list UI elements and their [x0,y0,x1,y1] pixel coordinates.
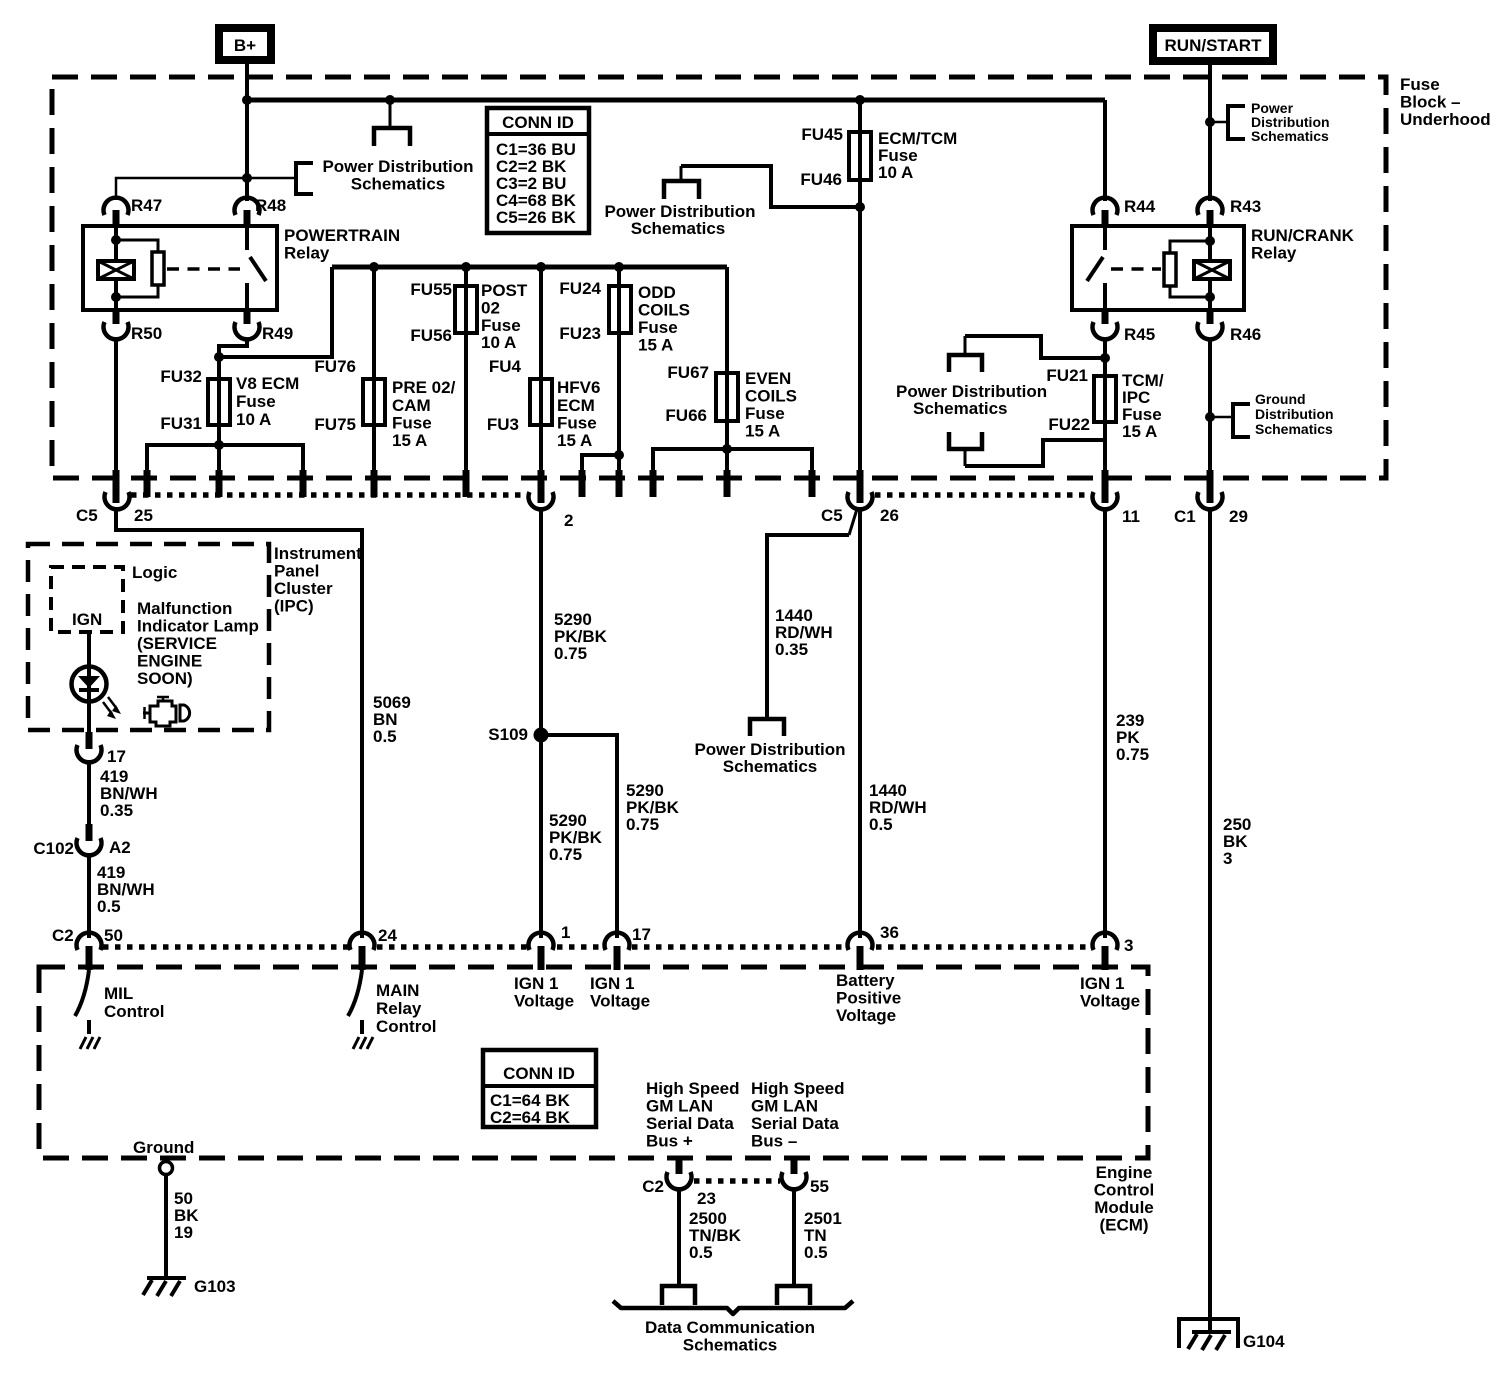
wire R45 to FU21 [1103,338,1107,422]
ECM pin 50 stub [86,946,93,970]
node coil top [111,235,121,245]
svg-text:Logic: Logic [132,563,177,582]
wire FU66 to branch [725,421,729,472]
svg-text:0.5: 0.5 [804,1243,828,1262]
pin 26 arc [848,492,873,509]
ground internal (MAIN) [353,1037,373,1049]
svg-text:FU4: FU4 [489,357,522,376]
wire MIL lamp to IPC pin 17 [87,701,91,734]
svg-text:V8 ECM: V8 ECM [236,374,299,393]
ECM pin 36 arc [848,933,873,950]
svg-text:POST: POST [481,281,528,300]
svg-text:ENGINE: ENGINE [137,652,202,671]
wire FU31 output branch [147,445,303,470]
svg-text:0.75: 0.75 [554,644,587,663]
ECM pin 55 arc [781,1172,806,1189]
svg-text:Schematics: Schematics [631,219,726,238]
svg-text:R45: R45 [1124,325,1155,344]
pin R46 [1198,308,1262,344]
wire FU56 column [464,267,468,472]
wire relay coil vertical [114,226,118,310]
svg-text:10 A: 10 A [878,163,913,182]
off-page fork lower (Power Distribution right) [949,432,982,466]
svg-text:FU76: FU76 [314,357,356,376]
ECM pin 36 stub [857,946,864,970]
stub FU23 [616,470,623,497]
svg-text:Malfunction: Malfunction [137,599,232,618]
svg-text:(IPC): (IPC) [274,597,314,616]
wire ECM/TCM fuse column [858,100,862,472]
svg-text:Schematics: Schematics [1255,421,1333,437]
fuse HFV6 ECM FU4/FU3 [530,379,552,425]
svg-text:FU46: FU46 [800,170,842,189]
svg-text:Fuse: Fuse [392,414,432,433]
pin R45 [1093,308,1156,344]
power symbol B+ [219,28,271,60]
ECM dashed box [39,967,1148,1158]
relay POWERTRAIN box [83,226,277,310]
switch relay contact [247,226,266,310]
svg-text:29: 29 [1229,507,1248,526]
svg-text:3: 3 [1124,936,1133,955]
svg-text:FU67: FU67 [667,363,709,382]
svg-text:Serial Data: Serial Data [646,1114,734,1133]
svg-text:Voltage: Voltage [836,1006,896,1025]
pin R47 [104,196,163,227]
stub FU66 branch right [809,470,816,497]
svg-text:0.5: 0.5 [869,815,893,834]
fuse POST 02 FU55/FU56 [455,286,477,333]
ECM dotted connector row [103,944,1090,950]
wire R46 to pin 29 [1208,338,1212,472]
lamp MIL (LED indicator) [72,667,107,702]
svg-text:IGN: IGN [72,610,102,629]
wire main B+ bus [247,98,1105,103]
node R49 fuse feed junction [214,352,224,362]
svg-text:Ground: Ground [1255,391,1306,407]
svg-text:Voltage: Voltage [590,992,650,1011]
pin R50 [104,308,163,343]
svg-text:FU45: FU45 [801,125,843,144]
ECM pin 3 arc [1093,933,1118,950]
fuse EVEN COILS FU67/FU66 [716,373,738,421]
svg-text:G103: G103 [194,1277,236,1296]
ECM pin 3 stub [1102,946,1109,970]
node ECM/TCM fuse output junction [855,202,865,212]
wire R50 to pin 25 [114,338,118,472]
svg-text:Voltage: Voltage [514,992,574,1011]
ECM bottom dotted row [694,1178,780,1184]
off-page fork to Power Distribution Schematics [374,100,410,146]
switch MIL control driver [75,970,89,1034]
stub FU66 branch left [650,470,657,497]
pin 11 arc [1093,492,1118,509]
svg-text:Bus –: Bus – [751,1132,797,1151]
IPC pin 17 stub [86,732,93,749]
svg-text:C2: C2 [52,926,74,945]
svg-text:R47: R47 [131,196,162,215]
svg-text:FU3: FU3 [487,415,519,434]
svg-text:Fuse: Fuse [745,404,785,423]
wire FU22 to pin 11 [1103,422,1107,472]
pin 25 stub [113,470,120,503]
switch MAIN relay control driver [348,970,362,1034]
wire pin 29 to G104 (250) [1208,507,1212,1333]
ECM pin 55 stub [791,1156,798,1174]
svg-text:S109: S109 [488,725,528,744]
svg-text:IGN 1: IGN 1 [514,974,558,993]
IPC pin 17 arc [77,745,102,762]
svg-text:CONN ID: CONN ID [503,1064,575,1083]
dashed relay actuator link [167,267,240,271]
svg-text:IGN 1: IGN 1 [1080,974,1124,993]
svg-text:RUN/CRANK: RUN/CRANK [1251,226,1355,245]
ECM pin 1 arc [528,933,553,950]
svg-text:36: 36 [880,923,899,942]
svg-text:15 A: 15 A [557,431,592,450]
node coil bottom (right) [1205,292,1215,302]
fuse ECM/TCM FU45/FU46 [849,132,871,180]
svg-text:19: 19 [174,1223,193,1242]
wire FU23 column [617,267,621,472]
svg-text:R44: R44 [1124,197,1156,216]
svg-text:24: 24 [378,926,397,945]
wire FU31 center drop [217,445,221,472]
wire IPC 17 to C102 (419) [87,760,91,826]
brace data communication [613,1301,853,1314]
svg-text:FU66: FU66 [665,406,707,425]
node B+ bus junction [242,95,252,105]
wire FU23 output branch [582,455,619,470]
svg-text:Positive: Positive [836,989,901,1008]
svg-text:15 A: 15 A [745,422,780,441]
svg-text:FU55: FU55 [410,280,452,299]
svg-text:Block –: Block – [1400,93,1460,112]
wire fuse feed bus [332,265,727,270]
svg-text:FU21: FU21 [1046,366,1088,385]
svg-text:C2=64 BK: C2=64 BK [490,1108,571,1127]
svg-text:Instrument: Instrument [274,544,362,563]
svg-text:Fuse: Fuse [638,318,678,337]
node coil top (right) [1205,236,1215,246]
svg-text:CONN ID: CONN ID [502,113,574,132]
svg-text:A2: A2 [109,838,131,857]
wire RUN/START to R43 [1208,61,1212,201]
off-page fork upper (Power Distribution right) [949,336,982,372]
svg-text:Fuse: Fuse [1400,75,1440,94]
svg-text:Voltage: Voltage [1080,992,1140,1011]
svg-text:R46: R46 [1230,325,1261,344]
svg-text:R48: R48 [255,196,286,215]
svg-text:Schematics: Schematics [1251,128,1329,144]
ECM pin 23 stub [676,1156,683,1174]
pin 2 arc [529,492,554,509]
coil K2 (box with X) [1194,261,1230,279]
wire FU32 column [217,357,221,445]
svg-text:Module: Module [1094,1198,1154,1217]
svg-text:15 A: 15 A [638,336,673,355]
relay RUN/CRANK box [1072,226,1244,310]
svg-text:R43: R43 [1230,197,1261,216]
svg-text:Schematics: Schematics [683,1336,778,1355]
svg-text:Underhood: Underhood [1400,110,1491,129]
svg-text:Schematics: Schematics [351,175,446,194]
svg-text:17: 17 [632,925,651,944]
connector C5 dotted row (pins 26 to 11) [875,492,1091,498]
svg-text:0.75: 0.75 [1116,745,1149,764]
node FU66 output junction [722,444,732,454]
svg-text:15 A: 15 A [392,431,427,450]
svg-text:0.75: 0.75 [549,845,582,864]
svg-text:C5=26 BK: C5=26 BK [496,208,577,227]
wire pin 55 to data bus (2501) [792,1187,796,1285]
splice S109 [534,728,549,743]
svg-text:R49: R49 [262,324,293,343]
wire bus to R44 [1103,100,1107,201]
svg-text:Data Communication: Data Communication [645,1318,815,1337]
fuse TCM/IPC FU21/FU22 [1094,376,1116,422]
ECM pin 17 stub [614,946,621,970]
stub FU31 branch left [144,470,151,497]
node coil bottom [111,292,121,302]
svg-text:PRE 02/: PRE 02/ [392,378,456,397]
svg-text:0.35: 0.35 [775,640,808,659]
ECM pin 1 stub [538,946,545,970]
dashed relay actuator link (right) [1111,267,1161,271]
fuse ODD COILS FU24/FU23 [609,286,631,333]
wire R48 drop [245,100,249,201]
wire R47 branch [116,178,296,200]
svg-text:GM LAN: GM LAN [751,1097,818,1116]
svg-text:Bus +: Bus + [646,1132,693,1151]
svg-text:COILS: COILS [745,387,797,406]
wire upper fork to R45 junction [965,336,1105,358]
wire ground to G103 (50 BK) [164,1174,168,1278]
wire pin 25 to ECM pin 24 (5069) [116,507,362,938]
wire to bracket (ground dist) [1210,416,1233,419]
svg-text:C5: C5 [76,506,98,525]
svg-text:R50: R50 [131,324,162,343]
svg-text:Control: Control [376,1017,436,1036]
arrow light emission 1 [103,702,116,719]
svg-text:0.75: 0.75 [626,815,659,834]
node bus to FU75 [369,262,379,272]
svg-text:11: 11 [1122,507,1140,526]
svg-text:Indicator Lamp: Indicator Lamp [137,617,259,636]
node R47 branch junction [242,173,252,183]
svg-text:3: 3 [1223,849,1232,868]
ground G104 [1188,1332,1231,1350]
svg-text:0.5: 0.5 [373,727,397,746]
icon check engine [143,697,190,726]
ECM pin 17 arc [605,933,630,950]
svg-text:0.5: 0.5 [689,1243,713,1262]
ground internal (MIL) [80,1037,100,1049]
svg-text:Power Distribution: Power Distribution [322,157,473,176]
pin R44 [1093,197,1156,227]
svg-text:RUN/START: RUN/START [1165,36,1263,55]
svg-text:POWERTRAIN: POWERTRAIN [284,226,400,245]
bracket Ground Distribution Schematics reference [1233,404,1250,437]
terminal fork data bus - [777,1286,810,1305]
wire S109 branch to ECM pin 17 (5290) [541,735,617,938]
svg-text:0.35: 0.35 [100,801,133,820]
stub FU75 [371,470,378,497]
svg-text:MAIN: MAIN [376,981,419,1000]
svg-text:ECM: ECM [557,396,595,415]
connector C5 dotted row (pins 25 to 2) [131,492,529,498]
node R45 junction [1100,353,1110,363]
svg-text:IGN 1: IGN 1 [590,974,634,993]
svg-text:1: 1 [561,923,570,942]
wire lower fork to FU22 output [965,440,1105,466]
pin 26 stub [857,470,864,503]
svg-text:EVEN: EVEN [745,369,791,388]
svg-text:17: 17 [107,747,126,766]
svg-text:B+: B+ [234,36,256,55]
conn id table ECM (C1/C2=64 BK) [483,1050,596,1127]
node fork tap junction [385,95,395,105]
wire FU3 column [539,267,543,472]
svg-text:Ground: Ground [133,1138,194,1157]
wire IGN to MIL lamp [87,632,91,667]
node bus to FU23 [614,262,624,272]
svg-text:MIL: MIL [104,984,133,1003]
svg-text:C5: C5 [821,506,843,525]
svg-text:FU31: FU31 [160,414,202,433]
svg-text:FU56: FU56 [410,326,452,345]
ground G104 frame [1179,1319,1238,1348]
svg-text:(ECM): (ECM) [1099,1216,1148,1235]
node FU23 output junction [614,450,624,460]
svg-text:Schematics: Schematics [723,757,818,776]
svg-text:FU32: FU32 [160,367,202,386]
coil K1 (box with X) [98,261,134,279]
terminal fork data bus + [662,1286,695,1305]
svg-text:C102: C102 [33,839,74,858]
connector C102 stub [86,824,93,841]
svg-text:C1: C1 [1174,507,1196,526]
fuse V8 ECM FU32/FU31 [208,379,230,425]
pin 29 stub [1207,470,1214,503]
wire FU66 column [725,267,729,421]
svg-text:(SERVICE: (SERVICE [137,634,217,653]
bracket Power Distribution Schematics reference [296,163,313,194]
resistor relay suppression (right) [1164,241,1210,297]
svg-text:Schematics: Schematics [913,399,1008,418]
node bus to FU3 [536,262,546,272]
arrow light emission 2 [108,697,121,714]
ECM pin 50 arc [76,933,101,950]
node R46 bracket junction [1205,412,1215,422]
svg-text:Relay: Relay [376,999,422,1018]
wire B+ drop [245,60,249,100]
ECM pin 24 stub [359,946,366,970]
svg-text:10 A: 10 A [236,410,271,429]
resistor relay suppression [116,240,164,297]
node bus to FU56 [461,262,471,272]
node ECM/TCM fuse tap junction [855,95,865,105]
svg-text:C2: C2 [642,1177,664,1196]
wire R49 step to fuse feed [219,338,247,357]
wire relay coil vertical (right) [1208,226,1212,310]
fuse block underhood dashed border [52,77,1386,478]
off-page fork to Power Distribution Schematics (mid) [664,166,699,199]
svg-text:Cluster: Cluster [274,579,333,598]
pin 2 stub [538,470,545,503]
wire 1440 branch diagonal [849,509,857,535]
stub FU23 branch [579,470,586,497]
svg-text:26: 26 [880,506,899,525]
svg-text:Relay: Relay [1251,244,1297,263]
svg-text:02: 02 [481,299,500,318]
ECM pin 24 arc [349,933,374,950]
ECM pin 23 arc [667,1172,692,1189]
svg-text:HFV6: HFV6 [557,378,600,397]
svg-text:2: 2 [564,511,573,530]
svg-text:FU23: FU23 [559,324,601,343]
svg-text:FU22: FU22 [1048,415,1090,434]
svg-text:G104: G104 [1243,1332,1285,1351]
pin 25 arc [105,492,130,509]
svg-text:High Speed: High Speed [646,1079,740,1098]
wire pin 26 to ECM pin 36 (1440) [858,507,862,938]
svg-text:FU75: FU75 [314,415,356,434]
conn id table CONN ID C1-C5 [487,108,589,233]
svg-text:0.5: 0.5 [97,897,121,916]
svg-text:CAM: CAM [392,396,431,415]
svg-text:High Speed: High Speed [751,1079,845,1098]
off-page fork to Power Distribution Schematics (1440) [750,719,784,736]
bracket Power Distribution Schematics reference (right) [1228,106,1245,139]
connector C102 arc [76,838,101,855]
svg-text:Relay: Relay [284,244,330,263]
wire to bracket (top right) [1210,121,1228,124]
wire pin 11 to ECM pin 3 (239) [1103,507,1107,938]
wire fuse feed riser [219,267,332,357]
svg-text:25: 25 [134,506,153,525]
power symbol RUN/START [1153,28,1273,61]
pin R43 [1198,197,1262,227]
pin R49 [235,308,294,343]
svg-text:55: 55 [810,1177,829,1196]
wire pin 23 to data bus (2500) [677,1187,681,1285]
svg-text:FU24: FU24 [559,279,601,298]
pin R48 [235,196,287,227]
node FU31 output junction [214,440,224,450]
fuse PRE O2/CAM FU76/FU75 [363,379,385,425]
stub FU66 center [724,470,731,497]
svg-text:Control: Control [104,1002,164,1021]
svg-text:50: 50 [104,926,123,945]
switch relay contact (right) [1087,226,1105,310]
svg-text:Fuse: Fuse [557,414,597,433]
wire 1440 branch to fork [767,535,849,718]
stub FU31 center [216,470,223,497]
svg-text:ODD: ODD [638,283,676,302]
terminal ground circle on ECM border [160,1162,173,1175]
svg-text:GM LAN: GM LAN [646,1097,713,1116]
svg-text:SOON): SOON) [137,669,193,688]
wire FU75 column [372,267,376,472]
svg-text:Engine: Engine [1096,1163,1153,1182]
pin 11 stub [1102,470,1109,503]
node R43 branch junction [1205,117,1215,127]
svg-text:10 A: 10 A [481,333,516,352]
IPC dashed box [28,544,269,730]
pin 29 arc [1198,492,1223,509]
svg-text:Battery: Battery [836,971,895,990]
